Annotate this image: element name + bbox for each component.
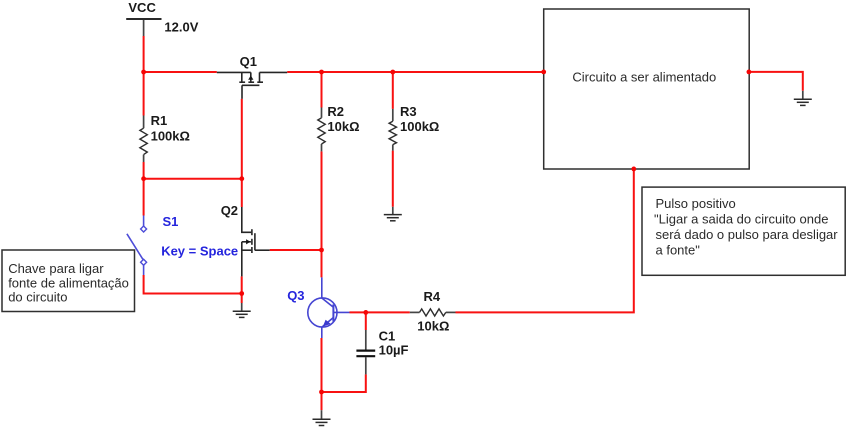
svg-text:C1: C1 <box>379 328 396 343</box>
svg-text:100kΩ: 100kΩ <box>151 128 190 143</box>
svg-text:Chave para ligar: Chave para ligar <box>8 261 104 276</box>
svg-text:Key = Space: Key = Space <box>161 244 238 259</box>
svg-text:Q3: Q3 <box>287 288 304 303</box>
svg-text:será dado o pulso para desliga: será dado o pulso para desligar <box>656 227 839 242</box>
svg-text:10kΩ: 10kΩ <box>327 119 359 134</box>
svg-text:Circuito a ser alimentado: Circuito a ser alimentado <box>572 69 716 84</box>
svg-text:10kΩ: 10kΩ <box>417 318 449 333</box>
svg-text:R3: R3 <box>400 104 417 119</box>
svg-text:10µF: 10µF <box>379 343 409 358</box>
svg-text:do circuito: do circuito <box>8 290 67 305</box>
svg-text:R1: R1 <box>151 113 168 128</box>
svg-text:R4: R4 <box>424 289 441 304</box>
svg-text:12.0V: 12.0V <box>164 19 198 34</box>
svg-text:Q1: Q1 <box>240 54 257 69</box>
svg-text:Q2: Q2 <box>221 203 238 218</box>
svg-text:VCC: VCC <box>128 0 156 15</box>
svg-text:a fonte": a fonte" <box>656 242 701 257</box>
svg-text:"Ligar a saida do circuito ond: "Ligar a saida do circuito onde <box>654 212 828 227</box>
svg-text:Pulso positivo: Pulso positivo <box>656 196 736 211</box>
svg-text:100kΩ: 100kΩ <box>400 119 439 134</box>
svg-text:S1: S1 <box>163 214 179 229</box>
svg-text:R2: R2 <box>327 104 344 119</box>
svg-text:fonte de alimentação: fonte de alimentação <box>8 275 129 290</box>
